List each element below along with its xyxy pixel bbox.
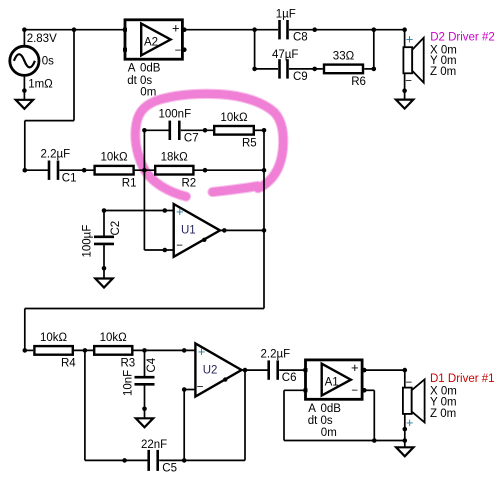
wire mid rail left — [25, 308, 264, 310]
wire junction up to C7 — [143, 130, 145, 170]
capacitor C9 — [280, 59, 288, 78]
svg-text:R6: R6 — [351, 76, 366, 88]
ground below source — [16, 100, 33, 109]
svg-text:0m: 0m — [321, 427, 337, 439]
svg-text:+: + — [406, 32, 414, 47]
resistor R2 — [155, 166, 193, 175]
svg-text:A2: A2 — [144, 37, 158, 49]
wire C4 top — [144, 350, 146, 377]
wire C2 to U1 in+ — [104, 210, 174, 212]
svg-text:C8: C8 — [293, 31, 308, 43]
pin A1 out- — [362, 388, 367, 393]
resistor R3 — [94, 346, 132, 355]
wire C4 bottom — [144, 384, 146, 418]
svg-text:33Ω: 33Ω — [333, 50, 355, 62]
wire mid rail down to R4 — [24, 309, 26, 351]
svg-text:C4: C4 — [146, 357, 158, 372]
wire R3 to U2 in+ — [134, 349, 196, 351]
resistor R4 — [34, 346, 72, 355]
svg-text:Z 0m: Z 0m — [430, 408, 456, 420]
pin A2 out+ — [182, 27, 187, 32]
resistor R1 — [95, 166, 134, 175]
pin A1 out+ — [362, 368, 367, 373]
junction R5 right — [262, 128, 267, 133]
junction after R2 — [203, 168, 208, 173]
wire right rail down — [263, 130, 265, 308]
junction R6 right — [372, 67, 377, 72]
svg-text:10kΩ: 10kΩ — [101, 152, 129, 164]
junction U2 in- feedback — [182, 458, 187, 463]
svg-text:100µF: 100µF — [82, 225, 94, 258]
svg-text:A: A — [308, 403, 316, 415]
junction before C5 — [122, 458, 127, 463]
wire node down for U1 inverting input — [143, 170, 145, 250]
svg-text:2.83V: 2.83V — [27, 33, 57, 45]
op-amp U2 — [195, 343, 241, 396]
svg-text:C9: C9 — [293, 71, 308, 83]
wire U2 in- down to C5 row — [183, 390, 185, 461]
pin A1 in- — [304, 388, 308, 392]
speaker D2 — [403, 32, 423, 88]
svg-text:1µF: 1µF — [276, 9, 296, 21]
svg-text:dt 0s: dt 0s — [308, 415, 333, 427]
wire U2 in- stub — [184, 389, 195, 391]
junction above C4 ground — [142, 407, 147, 412]
svg-text:R3: R3 — [121, 358, 136, 370]
junction R3-C4 — [142, 348, 147, 353]
junction R6 top — [372, 27, 377, 32]
svg-text:R4: R4 — [61, 358, 76, 370]
junction D1 top — [403, 368, 408, 373]
junction before C8 branch — [252, 27, 257, 32]
svg-text:22nF: 22nF — [141, 439, 167, 451]
svg-text:1mΩ: 1mΩ — [28, 79, 53, 91]
annotation highlight loop (hand-drawn marker) — [135, 94, 283, 197]
svg-text:D1 Driver #1: D1 Driver #1 — [430, 373, 495, 385]
svg-text:2.2µF: 2.2µF — [261, 349, 291, 361]
svg-text:Y 0m: Y 0m — [430, 397, 457, 409]
capacitor C5 — [149, 450, 158, 471]
wire left rail to C1 — [25, 169, 48, 171]
svg-text:−: − — [405, 76, 412, 88]
wire bottom loop to speaker — [284, 440, 405, 442]
svg-text:18kΩ: 18kΩ — [161, 152, 189, 164]
junction after C1 — [82, 168, 87, 173]
svg-text:A: A — [128, 63, 136, 75]
junction above C2 ground — [102, 266, 107, 271]
wire source bottom — [23, 75, 25, 99]
amplifier A2 — [125, 20, 182, 59]
wire C6 to A1 — [279, 369, 305, 371]
capacitor C8 — [280, 20, 288, 39]
svg-text:0s: 0s — [42, 56, 54, 68]
svg-text:10nF: 10nF — [123, 370, 135, 396]
wire branch left — [25, 120, 74, 122]
junction above source ground — [22, 88, 27, 93]
wire C7 to R5 — [181, 129, 214, 131]
svg-text:2.2µF: 2.2µF — [41, 149, 71, 161]
svg-text:A1: A1 — [325, 377, 339, 389]
pin U2 out — [243, 368, 248, 373]
pin U1 in- — [163, 248, 168, 253]
pin U2 in+ — [182, 348, 187, 353]
svg-text:−: − — [175, 45, 182, 57]
wire R4-R3 node down — [84, 350, 86, 460]
svg-text:U2: U2 — [203, 364, 218, 376]
pin A2 in- — [123, 48, 127, 52]
svg-text:100nF: 100nF — [159, 109, 192, 121]
resistor R5 — [214, 126, 254, 135]
capacitor C6 — [269, 360, 278, 379]
wire down to speaker D2 — [404, 30, 406, 48]
wire C9 branch down — [254, 30, 256, 69]
junction R2 rail — [262, 168, 267, 173]
svg-text:0dB: 0dB — [321, 403, 342, 415]
junction D1 loop — [403, 438, 408, 443]
wire R1 to R2 — [133, 169, 154, 171]
svg-text:dt 0s: dt 0s — [127, 75, 152, 87]
ground below C2 — [95, 279, 112, 288]
capacitor C4 — [135, 377, 155, 384]
wire to C9 — [255, 68, 278, 70]
resistor R6 — [324, 65, 363, 74]
junction R4-R3 — [83, 348, 88, 353]
wire C9 to R6 — [289, 68, 323, 70]
svg-text:R5: R5 — [242, 138, 257, 150]
svg-text:10kΩ: 10kΩ — [40, 332, 68, 344]
svg-text:U1: U1 — [181, 225, 196, 237]
svg-text:R2: R2 — [182, 177, 197, 189]
wire A1 out- right — [362, 389, 374, 391]
junction C7 left — [142, 128, 147, 133]
wire branch down — [73, 30, 75, 121]
op-amp U1 — [174, 204, 220, 257]
svg-text:−: − — [197, 381, 204, 393]
wire A2 out to C8 — [182, 29, 278, 31]
pin U2 in- — [182, 387, 187, 392]
svg-text:Z 0m: Z 0m — [430, 66, 456, 78]
capacitor C7 — [170, 121, 180, 140]
svg-text:10kΩ: 10kΩ — [220, 112, 248, 124]
junction D2 bottom — [402, 88, 407, 93]
capacitor C1 — [49, 161, 58, 180]
voltage source V1 — [10, 46, 39, 75]
wire source top — [23, 30, 25, 47]
amplifier A1 — [306, 360, 363, 399]
pin A2 out- — [182, 47, 187, 52]
wire top rail source to A2 — [24, 29, 125, 31]
capacitor C2 — [94, 237, 114, 244]
ground below D2 — [396, 100, 413, 109]
wire R2 to rail — [195, 169, 265, 171]
junction C1 left corner — [23, 168, 28, 173]
wire C2 bottom — [103, 244, 105, 279]
pin U1 out — [222, 228, 227, 233]
svg-text:−: − — [406, 377, 413, 389]
wire R6 rail up — [373, 30, 375, 69]
svg-text:C6: C6 — [282, 372, 297, 384]
svg-text:C7: C7 — [184, 132, 199, 144]
junction U1 out rail — [262, 228, 267, 233]
ground below D1 — [396, 447, 413, 456]
junction C2 top corner — [102, 208, 107, 213]
svg-text:−: − — [176, 240, 183, 252]
wire U2 output — [242, 369, 269, 371]
junction after C7 — [203, 128, 208, 133]
wire to R4 — [25, 349, 33, 351]
pin A1 in+ — [304, 368, 308, 372]
wire D2 to ground — [404, 73, 406, 99]
junction node R1-R2-C7 — [142, 168, 147, 173]
junction after C8 — [312, 27, 317, 32]
svg-text:+: + — [351, 360, 359, 375]
wire A1 in- left — [284, 389, 306, 391]
junction A1 out- loop — [372, 438, 377, 443]
junction after C9 — [312, 67, 317, 72]
junction speaker corner — [402, 27, 407, 32]
svg-text:R1: R1 — [122, 177, 137, 189]
wire C2 top — [103, 211, 105, 237]
wire A1 in- down — [283, 390, 285, 440]
svg-text:+: + — [198, 344, 206, 359]
wire A1 out- down — [373, 390, 375, 440]
pin U1 in+ — [163, 208, 168, 213]
wire C8 to speaker corner — [289, 29, 405, 31]
ground below C4 — [136, 418, 153, 427]
svg-text:47µF: 47µF — [272, 49, 298, 61]
wire down to D1 — [404, 370, 406, 388]
junction top rail branch — [72, 27, 77, 32]
junction D1 bottom — [403, 427, 408, 432]
svg-text:+: + — [176, 204, 184, 219]
svg-text:C5: C5 — [162, 462, 177, 474]
speaker D1 — [403, 377, 425, 430]
pin A2 in+ — [123, 28, 127, 32]
wire C5 to U2 out corner — [159, 459, 245, 461]
svg-text:0m: 0m — [140, 87, 156, 99]
junction R4 left — [23, 348, 28, 353]
junction at source top — [22, 27, 27, 32]
svg-text:0dB: 0dB — [140, 63, 161, 75]
wire U2 out down to C5 — [244, 370, 246, 460]
wire R4 to R3 — [74, 349, 93, 351]
svg-text:10kΩ: 10kΩ — [100, 332, 128, 344]
svg-text:−: − — [351, 385, 358, 397]
wire to U1 in- — [144, 249, 173, 251]
junction C9 left — [252, 67, 257, 72]
wire C1 to R1 — [60, 169, 94, 171]
wire to C5 — [85, 459, 148, 461]
svg-text:C2: C2 — [110, 221, 122, 236]
wire D1 to ground — [404, 414, 406, 447]
wire to C7 — [144, 129, 168, 131]
svg-text:+: + — [172, 20, 180, 35]
svg-text:D2 Driver #2: D2 Driver #2 — [430, 32, 495, 44]
svg-text:+: + — [406, 415, 414, 430]
wire A1 out+ to D1 — [362, 369, 405, 371]
wire R5 to rail — [255, 129, 265, 131]
wire R6 to rail — [364, 68, 374, 70]
wire U1 output — [220, 229, 264, 231]
wire branch down to C1 — [24, 121, 26, 171]
svg-text:C1: C1 — [62, 172, 77, 184]
